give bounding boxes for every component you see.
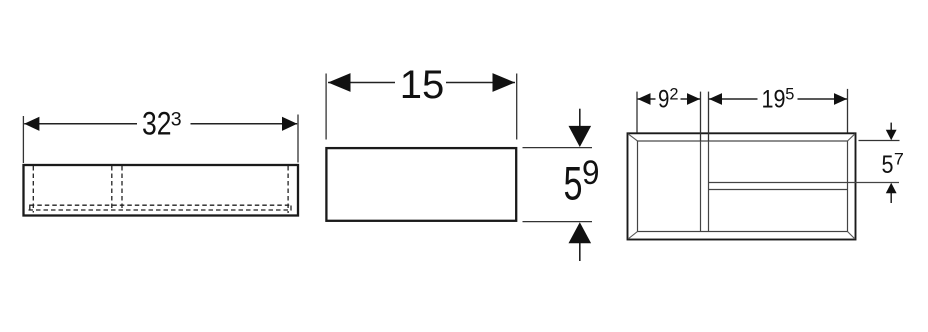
extension line top 5.9: [523, 147, 593, 149]
extension line bottom 5.9: [523, 221, 593, 223]
shelf double line: [709, 182, 900, 184]
extension line left 9.2: [636, 92, 638, 133]
dimension line 9.2: [638, 98, 701, 100]
svg-text:15: 15: [400, 63, 445, 107]
top view inner frame: [638, 141, 848, 232]
arrowhead right 19.5: [834, 93, 847, 105]
extension line top 5.7: [859, 140, 900, 142]
mitre bottom-right: [848, 232, 856, 240]
top view outer frame: [628, 133, 856, 239]
hidden edge dashed vertical right: [287, 166, 289, 213]
arrowhead left 19.5: [709, 93, 722, 105]
arrow up 5.9: [579, 243, 581, 261]
arrowhead left 32.3: [24, 117, 39, 131]
extension line right 32.3: [297, 115, 299, 163]
arrowhead left 15: [328, 73, 351, 92]
extension line left 15: [325, 74, 327, 140]
arrowhead right 9.2: [687, 93, 700, 105]
dimension line 15: [328, 82, 515, 84]
svg-text:3: 3: [171, 109, 182, 131]
hidden edge dashed vertical mid pair: [111, 166, 113, 210]
extension line left 32.3: [22, 116, 24, 163]
svg-text:5: 5: [785, 86, 794, 104]
label 19.5: [758, 88, 798, 109]
dimension line 19.5: [709, 98, 847, 100]
svg-text:2: 2: [669, 86, 678, 104]
arrowhead left 9.2: [638, 93, 651, 105]
svg-text:5: 5: [564, 157, 583, 210]
mitre top-right: [848, 134, 856, 141]
arrow up 5.7: [890, 193, 892, 203]
svg-text:7: 7: [894, 149, 904, 168]
extension lines divider up: [700, 92, 702, 141]
arrowhead right 32.3: [282, 117, 297, 131]
svg-text:9: 9: [582, 154, 600, 192]
label 9.2: [656, 88, 681, 109]
dimension line 32.3: [24, 123, 297, 125]
mitre bottom-left: [628, 232, 638, 240]
arrow down 5.7: [890, 123, 892, 131]
svg-text:19: 19: [762, 86, 786, 114]
arrow down 5.9: [579, 109, 581, 128]
hidden edge dashed vertical left: [32, 166, 34, 213]
svg-text:9: 9: [658, 86, 669, 114]
svg-text:32: 32: [142, 105, 172, 141]
arrowhead right 15: [493, 73, 516, 92]
label 32.3: [137, 109, 191, 137]
divider double line: [700, 141, 702, 232]
svg-text:5: 5: [882, 151, 894, 179]
extension line right 19.5: [847, 89, 849, 133]
hidden bottom panel dashed lines: [30, 204, 289, 206]
mitre top-left: [628, 134, 638, 141]
extension line right 15: [516, 74, 518, 140]
side view body: [24, 165, 299, 216]
front view body: [326, 148, 516, 221]
label 15: [395, 64, 446, 101]
